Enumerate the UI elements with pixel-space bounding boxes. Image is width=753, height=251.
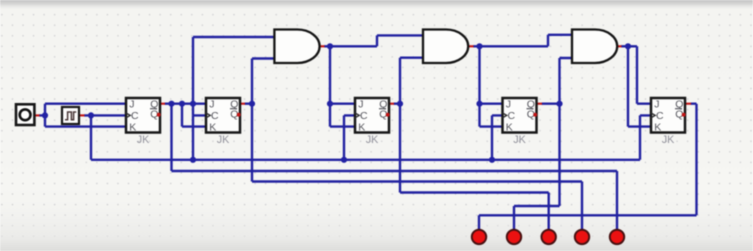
svg-text:K: K <box>506 122 513 134</box>
svg-text:C: C <box>360 110 368 122</box>
svg-text:JK: JK <box>662 134 675 146</box>
svg-text:J: J <box>129 99 134 111</box>
svg-text:JK: JK <box>366 134 379 146</box>
svg-text:J: J <box>358 99 363 111</box>
svg-text:JK: JK <box>217 134 230 146</box>
svg-text:C: C <box>211 110 219 122</box>
svg-text:JK: JK <box>513 134 526 146</box>
svg-text:C: C <box>508 110 516 122</box>
svg-text:C: C <box>656 110 664 122</box>
svg-text:J: J <box>506 99 511 111</box>
svg-text:JK: JK <box>137 134 150 146</box>
svg-text:C: C <box>131 110 139 122</box>
svg-text:K: K <box>358 122 365 134</box>
svg-text:J: J <box>654 99 659 111</box>
svg-text:K: K <box>129 122 136 134</box>
svg-text:K: K <box>209 122 216 134</box>
svg-text:K: K <box>654 122 661 134</box>
svg-text:J: J <box>209 99 214 111</box>
